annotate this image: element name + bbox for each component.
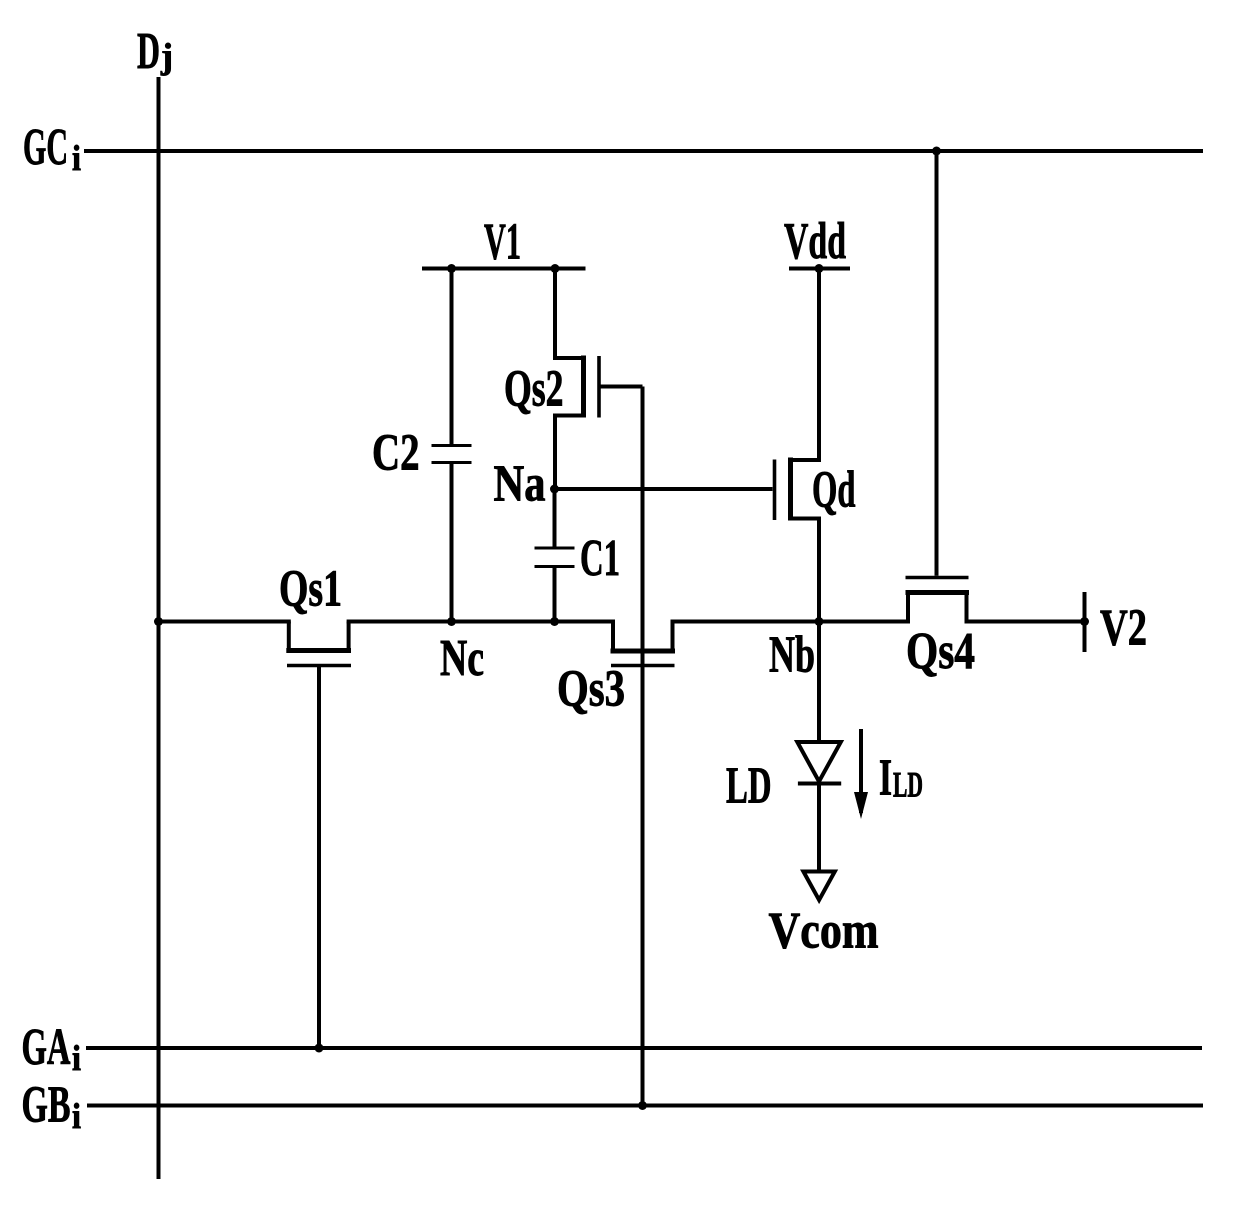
svg-text:i: i bbox=[72, 138, 81, 178]
svg-text:I: I bbox=[879, 750, 892, 807]
svg-text:Nb: Nb bbox=[769, 627, 815, 684]
svg-text:C2: C2 bbox=[372, 425, 420, 482]
transistor Qs3 (in row, gate crossed by Qs2-gate line) bbox=[611, 622, 676, 666]
wire: row segment Dj to Qs1 bbox=[159, 620, 291, 624]
wire: row segment Qs4 to V2 terminal bbox=[965, 620, 1086, 624]
terminal V2 bar bbox=[1083, 592, 1087, 652]
node: junction dot Dj / row bbox=[154, 617, 163, 626]
wire: Qs2 gate down to GBi (crosses Na wire and Qs3) bbox=[641, 387, 645, 1106]
transistor Qd (drive transistor, drain from Vdd, source to Nb, gate left) bbox=[775, 269, 820, 622]
svg-text:Qs3: Qs3 bbox=[557, 661, 625, 718]
svg-text:GA: GA bbox=[22, 1019, 71, 1076]
current arrow ILD bbox=[854, 729, 868, 819]
svg-text:Vcom: Vcom bbox=[769, 903, 879, 960]
node Nb junction dot bbox=[815, 617, 824, 626]
wire: V1 supply rail bbox=[422, 267, 586, 271]
svg-text:Na: Na bbox=[494, 456, 546, 513]
svg-text:Qs4: Qs4 bbox=[906, 623, 975, 680]
label GAi bbox=[22, 1019, 82, 1078]
node: junction dot Qs1 gate / GAi bbox=[315, 1044, 324, 1053]
capacitor C1 bbox=[535, 548, 575, 567]
wire: Vdd supply rail bbox=[789, 267, 850, 271]
svg-text:LD: LD bbox=[893, 765, 923, 805]
node: junction dot V1 / Qs2 drain bbox=[551, 264, 560, 273]
svg-text:i: i bbox=[72, 1096, 81, 1136]
wire: C1 bottom plate to row node bbox=[553, 567, 557, 622]
svg-text:Nc: Nc bbox=[440, 630, 484, 687]
node Na junction dot bbox=[550, 485, 559, 494]
wire: row segment Qs3 to Qs4 bbox=[671, 620, 911, 624]
svg-text:Qd: Qd bbox=[812, 462, 856, 519]
wire: C2 bottom plate to node Nc bbox=[450, 463, 454, 622]
wire: LD cathode to Vcom terminal bbox=[817, 784, 821, 872]
wire: node Na to Qd gate bbox=[555, 487, 773, 491]
label GCi bbox=[23, 119, 81, 178]
svg-text:i: i bbox=[72, 1038, 81, 1078]
node Nc junction dot bbox=[447, 617, 456, 626]
svg-text:LD: LD bbox=[726, 758, 772, 815]
svg-text:GB: GB bbox=[22, 1077, 71, 1134]
label GBi bbox=[22, 1077, 82, 1137]
terminal Vcom arrow bbox=[803, 872, 834, 901]
diode LD (light emitting element) bbox=[797, 742, 841, 784]
wire: scan line GBi horizontal bbox=[87, 1104, 1203, 1108]
node: junction dot C1 / row bbox=[550, 617, 559, 626]
svg-text:j: j bbox=[160, 36, 173, 76]
transistor Qs1 (in row, gate down to GAi) bbox=[286, 622, 351, 1049]
wire: scan line GCi horizontal bbox=[84, 149, 1203, 153]
svg-text:Qs2: Qs2 bbox=[504, 361, 564, 418]
svg-text:C1: C1 bbox=[580, 530, 620, 587]
svg-text:V1: V1 bbox=[484, 214, 521, 271]
svg-text:Vdd: Vdd bbox=[784, 213, 846, 270]
label Dj bbox=[137, 23, 173, 80]
capacitor C2 bbox=[432, 446, 472, 463]
label ILD bbox=[879, 750, 923, 807]
wire: Nb down to LD anode bbox=[817, 622, 821, 743]
transistor Qs4 (in row, gate up to GCi) bbox=[906, 578, 970, 622]
wire: GCi down to Qs4 gate bbox=[935, 151, 939, 576]
node: terminal dot V2 bbox=[1080, 617, 1089, 626]
wire: row segment Qs1 to Qs3 bbox=[347, 620, 615, 624]
svg-text:V2: V2 bbox=[1100, 600, 1147, 657]
node: junction dot Vdd bbox=[815, 264, 824, 273]
transistor Qs2 (drain from V1, source to Na, gate right) bbox=[555, 269, 643, 490]
node: junction dot Qs3 gate line / GBi bbox=[638, 1101, 647, 1110]
svg-text:D: D bbox=[137, 23, 160, 80]
svg-text:Qs1: Qs1 bbox=[279, 561, 342, 618]
node: junction dot V1 / C2 branch bbox=[447, 264, 456, 273]
wire: data line Dj vertical bbox=[157, 77, 161, 1179]
svg-text:GC: GC bbox=[23, 119, 68, 176]
node: junction dot GCi / Qs4 gate line bbox=[932, 147, 941, 156]
wire: scan line GAi horizontal bbox=[86, 1046, 1202, 1050]
wire: Na down to C1 top plate bbox=[553, 489, 557, 547]
wire: V1 to C2 top plate bbox=[450, 269, 454, 445]
